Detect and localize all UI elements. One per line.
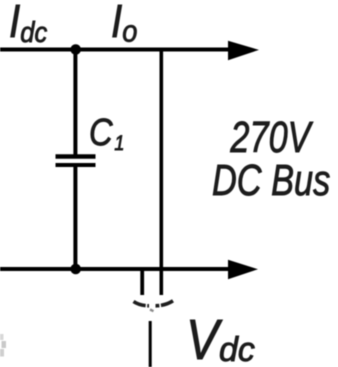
label 270V DC Bus <box>212 116 329 202</box>
capacitor C1 top plate <box>56 154 96 158</box>
label Idc (input current) <box>9 0 47 48</box>
arrowhead: bottom DC bus output <box>228 260 258 279</box>
wire: capacitor C1 top lead <box>73 50 77 157</box>
label Vdc (bus voltage) <box>186 312 219 367</box>
label Vdc subscript <box>219 333 255 367</box>
wire: top DC bus horizontal <box>0 48 232 52</box>
text artifact: clipped character at bottom-left edge <box>0 334 4 340</box>
wire: right vertical branch from top bus <box>160 50 164 296</box>
label Io (output current) <box>111 0 137 46</box>
label C1 (capacitor value) <box>89 114 124 154</box>
node: bottom junction dot <box>70 264 81 275</box>
node: top junction dot <box>70 44 81 55</box>
wire: Vdc measurement lead <box>149 321 152 367</box>
wire: bottom DC bus horizontal <box>0 267 232 271</box>
arrowhead: top DC bus output <box>228 41 259 60</box>
wire: capacitor C1 bottom lead <box>73 165 77 269</box>
capacitor C1 bottom plate <box>56 163 96 167</box>
connector: dashed brace under sense leads <box>134 302 150 306</box>
wire: left sense stub below bottom bus <box>140 269 144 295</box>
